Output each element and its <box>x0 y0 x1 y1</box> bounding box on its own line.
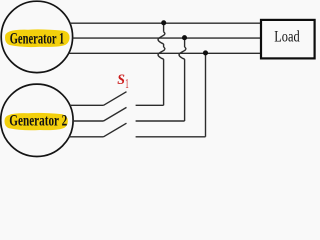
svg-text:Generator 2: Generator 2 <box>9 111 67 128</box>
svg-text:Load: Load <box>274 28 299 46</box>
svg-text:Generator 1: Generator 1 <box>10 29 65 47</box>
svg-text:1: 1 <box>125 77 128 92</box>
svg-text:S: S <box>117 72 125 89</box>
